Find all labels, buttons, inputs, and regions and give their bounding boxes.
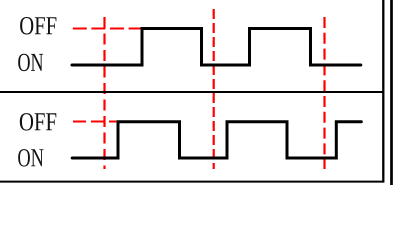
wire: top waveform square wave (72, 29, 361, 66)
red dashed OFF-level reference line (bottom panel) (73, 121, 116, 123)
label ON (bottom panel) (18, 149, 43, 167)
label OFF (top panel) (20, 17, 56, 35)
label OFF (bottom panel) (20, 113, 57, 131)
red dashed timing line T2 (crosses both panels) (213, 9, 215, 169)
red dashed OFF-level reference line (top panel) (73, 28, 141, 30)
red dashed timing line T1 (crosses both panels) (103, 17, 105, 169)
wire: horizontal table separator between panels (0, 91, 383, 93)
red dashed timing line T3 (crosses both panels) (323, 17, 325, 169)
wire: bottom waveform square wave (72, 122, 361, 158)
wire: outer right page border (390, 0, 393, 185)
wire: bottom table border (0, 181, 383, 183)
wire: inner right table border (382, 0, 384, 183)
label ON (top panel) (18, 54, 43, 71)
